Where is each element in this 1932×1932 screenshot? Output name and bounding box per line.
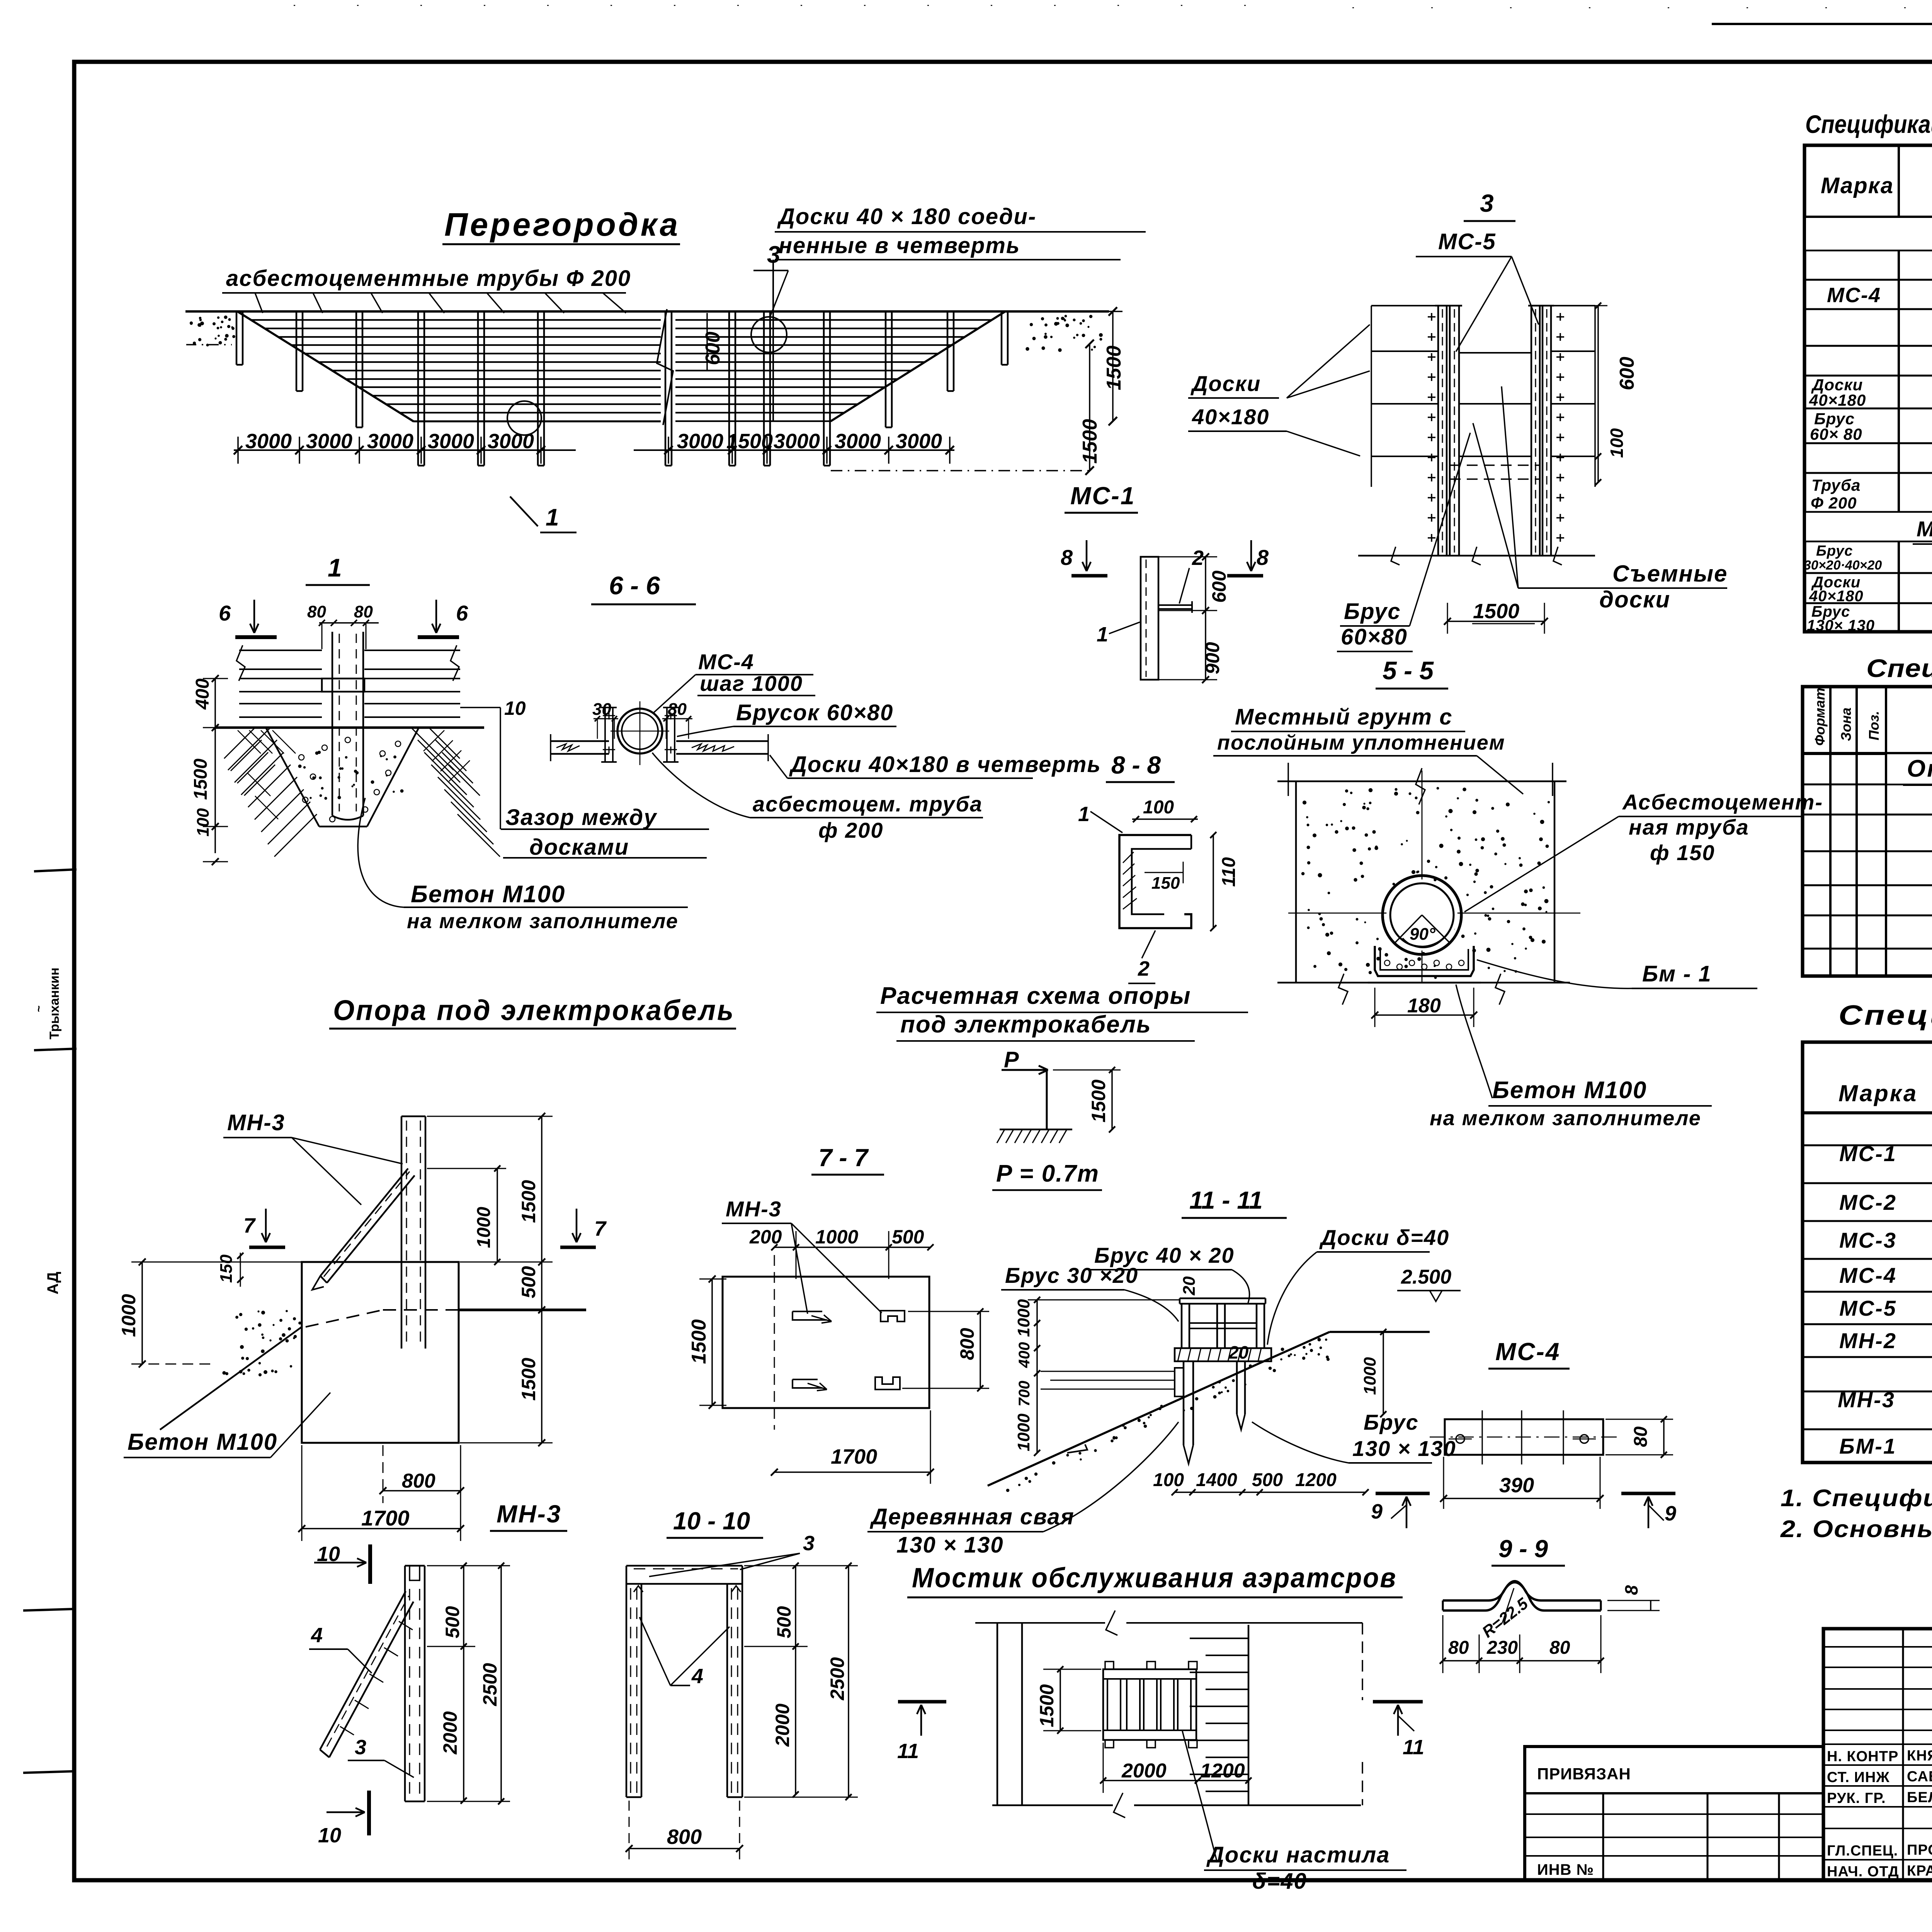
svg-text:1000: 1000 <box>1014 1413 1033 1451</box>
svg-text:2500: 2500 <box>827 1657 848 1701</box>
opora left dim 1000 <box>141 1262 143 1364</box>
svg-text:6 - 6: 6 - 6 <box>609 571 660 600</box>
svg-text:Брус: Брус <box>1364 1410 1419 1434</box>
11-11 right pile <box>1236 1361 1238 1414</box>
5-5 centerline horizontal <box>1288 913 1580 914</box>
section mark 9 right <box>1621 1492 1675 1495</box>
svg-text:~: ~ <box>32 1005 45 1012</box>
МС-4 holes <box>1456 1435 1464 1443</box>
svg-text:Съемные: Съемные <box>1612 561 1728 587</box>
opora right dim line outer 1500 500 1500 <box>541 1116 543 1443</box>
11-11 railing top rail <box>1180 1298 1265 1299</box>
svg-text:3: 3 <box>1480 189 1494 217</box>
svg-text:Брус: Брус <box>1344 599 1401 624</box>
svg-text:Бетон М100: Бетон М100 <box>1492 1077 1647 1104</box>
svg-text:P: P <box>1004 1047 1019 1072</box>
svg-text:7 - 7: 7 - 7 <box>818 1144 869 1172</box>
svg-text:500: 500 <box>442 1606 463 1638</box>
svg-text:40×180: 40×180 <box>1809 588 1864 605</box>
svg-text:Мостик обслуживания аэратсров: Мостик обслуживания аэратсров <box>912 1563 1397 1594</box>
10-10 posts <box>626 1584 628 1797</box>
6-6 clamp left <box>604 707 606 762</box>
МС-4 dim 390 bottom <box>1444 1498 1600 1499</box>
node1 left dims 400 1500 100 <box>214 679 216 853</box>
svg-text:МН-3: МН-3 <box>1838 1388 1895 1412</box>
МН-3 brace <box>320 1591 406 1750</box>
dim 1500 right lower <box>1089 344 1090 471</box>
svg-text:1500: 1500 <box>1079 419 1101 464</box>
svg-text:МН-2: МН-2 <box>1839 1328 1897 1353</box>
svg-text:7: 7 <box>243 1214 256 1237</box>
svg-text:500: 500 <box>773 1606 795 1638</box>
opora dash diagonal in footing <box>306 1310 383 1327</box>
table1 grid <box>1804 145 1932 632</box>
11-11 pile collar <box>1175 1368 1184 1396</box>
svg-text:600: 600 <box>1208 570 1230 603</box>
svg-text:Спецификация элементовк маркир: Спецификация элементовк маркировочной сх… <box>1805 110 1932 138</box>
svg-text:Бетон М100: Бетон М100 <box>128 1429 277 1455</box>
svg-text:1: 1 <box>1097 623 1108 646</box>
svg-text:послойным уплотнением: послойным уплотнением <box>1217 731 1505 754</box>
node3 right boards <box>1551 305 1595 306</box>
svg-text:ненные в четверть: ненные в четверть <box>779 233 1020 258</box>
svg-text:5 - 5: 5 - 5 <box>1383 656 1434 685</box>
opora bottom dim 1700 <box>302 1528 461 1529</box>
opora bottom dim 800 <box>383 1490 461 1492</box>
svg-text:10 - 10: 10 - 10 <box>673 1507 750 1535</box>
11-11 bottom dims <box>1175 1492 1366 1493</box>
5-5 centerline vertical <box>1422 770 1423 983</box>
7-7 angle anchor top-right <box>881 1311 905 1321</box>
svg-text:МС-4: МС-4 <box>1827 284 1881 307</box>
svg-text:1500: 1500 <box>726 430 773 453</box>
svg-text:800: 800 <box>667 1825 702 1849</box>
bottom edge of boards middle <box>414 421 661 422</box>
break symbol middle of band <box>657 309 673 425</box>
svg-text:НАЧ. ОТД: НАЧ. ОТД <box>1827 1864 1899 1880</box>
svg-text:2: 2 <box>1192 546 1204 570</box>
svg-text:Спецификация элементов моноли: Спецификация элементов монолитной констр… <box>1866 654 1932 682</box>
opora ground slope <box>160 1327 302 1430</box>
11-11 deck band <box>1175 1348 1271 1361</box>
svg-text:500: 500 <box>518 1266 539 1298</box>
svg-text:Доски 40×180 в четверть: Доски 40×180 в четверть <box>789 752 1101 777</box>
svg-text:КРАСАВИН: КРАСАВИН <box>1907 1863 1932 1879</box>
svg-text:1: 1 <box>328 553 342 582</box>
svg-text:2000: 2000 <box>772 1704 793 1747</box>
svg-text:Мостик обслуживания аэраторов: Мостик обслуживания аэраторов. <box>1917 517 1932 541</box>
7-7 angle anchor bottom-left <box>793 1379 822 1388</box>
svg-text:Местный грунт с: Местный грунт с <box>1235 704 1452 730</box>
svg-text:2000: 2000 <box>439 1711 461 1755</box>
svg-text:9: 9 <box>1665 1502 1676 1525</box>
svg-text:80: 80 <box>307 602 326 621</box>
svg-text:400: 400 <box>192 679 213 710</box>
node1 boards left block <box>239 650 322 651</box>
svg-text:80: 80 <box>668 700 687 719</box>
svg-text:230: 230 <box>1486 1638 1518 1658</box>
svg-text:Деревянная свая: Деревянная свая <box>869 1504 1075 1529</box>
node3 plus bolts left <box>1428 316 1435 318</box>
mostik left wall <box>997 1623 998 1805</box>
svg-text:40×180: 40×180 <box>1192 405 1269 429</box>
8-8 inner hatch <box>1123 852 1134 863</box>
9-9 dims 80 230 80 <box>1443 1660 1601 1662</box>
svg-text:20: 20 <box>1228 1342 1249 1362</box>
5-5 dim 180 <box>1375 1014 1474 1016</box>
svg-text:10: 10 <box>318 1824 341 1847</box>
svg-text:1000: 1000 <box>1361 1357 1379 1395</box>
svg-text:2000: 2000 <box>1121 1760 1167 1782</box>
left slope line <box>238 312 414 422</box>
svg-text:80: 80 <box>1549 1638 1570 1658</box>
svg-text:1500: 1500 <box>1103 345 1125 390</box>
10-10 dim 800 bottom <box>629 1848 740 1849</box>
svg-text:8: 8 <box>1621 1585 1641 1595</box>
svg-text:Поз.: Поз. <box>1866 711 1882 740</box>
svg-text:Доски δ=40: Доски δ=40 <box>1319 1225 1449 1250</box>
6-6 centerlines <box>639 701 641 765</box>
svg-text:асбестоцем. труба: асбестоцем. труба <box>753 792 983 816</box>
node3 ground line with breaks <box>1358 555 1595 557</box>
svg-text:МС-3: МС-3 <box>1839 1228 1897 1252</box>
node1 boards right block <box>364 650 460 651</box>
svg-text:1700: 1700 <box>831 1445 877 1468</box>
МС-4 centerline <box>1430 1437 1619 1438</box>
section mark 11 left <box>898 1700 946 1704</box>
node3 plus bolts right <box>1556 316 1564 318</box>
11-11 slope stipple <box>1158 1407 1161 1410</box>
dash-dot waterline left <box>186 344 232 345</box>
7-7 rectangle <box>723 1277 929 1408</box>
left margin fold tick y2715 <box>34 1049 77 1050</box>
МС-5 leaders <box>1456 257 1512 352</box>
node label 1 below elevation <box>510 497 538 526</box>
5-5 pipe circle <box>1383 876 1461 954</box>
7-7 dim 1700 bottom <box>774 1471 930 1473</box>
svg-text:1500: 1500 <box>518 1180 539 1223</box>
МС-4 cross ticks <box>1481 1410 1483 1464</box>
svg-text:Бетон М100: Бетон М100 <box>411 881 565 908</box>
svg-text:1500: 1500 <box>518 1358 539 1401</box>
svg-text:400: 400 <box>1016 1342 1033 1368</box>
svg-text:200: 200 <box>749 1226 782 1248</box>
svg-text:Доски настила: Доски настила <box>1206 1842 1390 1867</box>
svg-text:390: 390 <box>1499 1474 1534 1497</box>
svg-text:Н. КОНТР: Н. КОНТР <box>1827 1748 1898 1765</box>
dash-dot line right end <box>831 470 1090 471</box>
node circle 1 on elevation <box>507 401 541 435</box>
mostik bottom dims 2000 1200 <box>1103 1780 1248 1781</box>
svg-text:600: 600 <box>702 332 724 365</box>
svg-text:СТ. ИНЖ: СТ. ИНЖ <box>1827 1769 1890 1786</box>
МС-4 dim 80 right <box>1663 1419 1665 1455</box>
svg-text:8 - 8: 8 - 8 <box>1111 751 1161 779</box>
svg-text:асбестоцементные трубы Ф 200: асбестоцементные трубы Ф 200 <box>226 266 631 291</box>
svg-text:4: 4 <box>691 1665 703 1688</box>
svg-text:МС-5: МС-5 <box>1438 229 1496 254</box>
board lines of partition <box>251 319 661 321</box>
svg-text:1000: 1000 <box>815 1226 858 1248</box>
svg-text:3000: 3000 <box>367 430 413 453</box>
paper edge line top right <box>1712 23 1932 25</box>
svg-text:7: 7 <box>594 1217 607 1240</box>
node1 soil hatch left <box>228 728 270 770</box>
11-11 ground slope <box>988 1359 1269 1486</box>
6-6 board zigzags <box>556 744 580 751</box>
svg-text:900: 900 <box>1202 642 1223 674</box>
svg-text:Перегородка: Перегородка <box>444 206 680 243</box>
svg-text:1500: 1500 <box>1473 600 1519 623</box>
dim 1500 right upper <box>1112 311 1114 421</box>
svg-text:100: 100 <box>1607 428 1627 458</box>
svg-text:80: 80 <box>354 602 373 621</box>
10-10 dims right 500 2000 2500 <box>795 1566 796 1794</box>
mostik right dashed edge <box>1362 1623 1363 1700</box>
svg-text:досками: досками <box>529 835 629 860</box>
9-9 dim 8 right <box>1650 1600 1651 1611</box>
svg-text:Зона: Зона <box>1838 707 1854 741</box>
svg-text:Бм - 1: Бм - 1 <box>1642 961 1712 986</box>
svg-text:90°: 90° <box>1410 925 1435 944</box>
МН-3 dims right 500 2000 2500 <box>463 1566 464 1801</box>
privyazan block <box>1525 1747 1823 1881</box>
mostik ladder column <box>1248 1625 1250 1805</box>
svg-text:11 - 11: 11 - 11 <box>1189 1186 1263 1214</box>
svg-text:МС-1: МС-1 <box>1839 1141 1897 1166</box>
svg-text:КНЯГИНИЧЕВ: КНЯГИНИЧЕВ <box>1907 1748 1932 1764</box>
6-6 boards right <box>676 740 768 742</box>
left margin fold tick y2255 <box>34 869 77 871</box>
opora brace <box>320 1168 408 1276</box>
svg-text:150: 150 <box>1151 874 1180 893</box>
svg-text:Асбестоцемент-: Асбестоцемент- <box>1622 790 1823 814</box>
svg-text:40×180: 40×180 <box>1809 391 1866 409</box>
МН-3 post <box>404 1566 406 1801</box>
svg-text:130 × 130: 130 × 130 <box>1352 1436 1456 1461</box>
svg-text:САВИТСКИЙ: САВИТСКИЙ <box>1907 1767 1932 1785</box>
svg-text:3000: 3000 <box>774 430 820 453</box>
5-5 channel БМ-1 under pipe <box>1375 946 1474 976</box>
node1 clamp MC-4 <box>322 679 364 692</box>
table2 narrow columns <box>1829 687 1832 976</box>
svg-text:1000: 1000 <box>1014 1299 1033 1337</box>
svg-text:1200: 1200 <box>1200 1760 1245 1782</box>
svg-text:ИНВ №: ИНВ № <box>1537 1861 1594 1878</box>
svg-text:8: 8 <box>1061 545 1073 570</box>
svg-text:Брусок 60×80: Брусок 60×80 <box>736 700 893 725</box>
svg-text:δ=40: δ=40 <box>1252 1869 1307 1894</box>
stipple left end <box>217 316 219 319</box>
svg-text:ПРИВЯЗАН: ПРИВЯЗАН <box>1537 1765 1631 1783</box>
ground top line <box>185 310 1109 313</box>
svg-text:МН-3: МН-3 <box>726 1197 782 1221</box>
svg-text:2: 2 <box>1138 957 1150 980</box>
svg-text:150: 150 <box>217 1254 236 1283</box>
11-11 mid rail <box>1189 1322 1257 1324</box>
5-5 soil stipple dots <box>1360 862 1363 865</box>
svg-text:1200: 1200 <box>1295 1470 1337 1490</box>
svg-text:Зазор между: Зазор между <box>505 805 657 830</box>
svg-text:1: 1 <box>1078 803 1090 826</box>
svg-text:доски: доски <box>1599 587 1670 612</box>
opora slope stipple <box>271 1369 274 1372</box>
svg-text:3000: 3000 <box>835 430 881 453</box>
svg-text:60× 80: 60× 80 <box>1810 425 1862 443</box>
posts of partition with piles <box>236 311 238 365</box>
svg-text:Трыханкин: Трыханкин <box>47 968 62 1039</box>
МС-4 bar <box>1445 1419 1603 1455</box>
svg-text:Марка: Марка <box>1821 173 1894 198</box>
МС-1 dims 600 900 <box>1205 557 1206 680</box>
svg-text:80: 80 <box>1448 1638 1469 1658</box>
scanner noise dotted top <box>294 5 1275 6</box>
svg-text:1500: 1500 <box>1036 1684 1058 1727</box>
left margin fold tick y4585 <box>23 1771 74 1773</box>
svg-text:30: 30 <box>592 700 611 719</box>
node3 removable boards dashed <box>1450 464 1540 466</box>
node3 left boards <box>1371 305 1438 306</box>
11-11 left dim stack <box>1036 1300 1038 1453</box>
node1 pit trapezoid <box>266 728 319 827</box>
11-11 railing posts <box>1181 1304 1183 1348</box>
8-8 dim 110 <box>1213 835 1214 928</box>
svg-text:МС-1: МС-1 <box>1070 482 1135 510</box>
svg-text:3000: 3000 <box>428 430 474 453</box>
svg-text:100: 100 <box>1153 1470 1184 1490</box>
leader vertical from Доски label <box>772 260 774 421</box>
node1 ground line <box>215 726 484 729</box>
schema ground hatch <box>1000 1129 1072 1131</box>
10-10 top bar <box>626 1565 742 1567</box>
title block left signature grid <box>1902 1629 1904 1881</box>
svg-text:500: 500 <box>892 1226 924 1248</box>
table1 column lines <box>1898 145 1900 632</box>
opora post <box>401 1116 403 1349</box>
left margin fold tick y4165 <box>23 1609 74 1611</box>
svg-text:1000: 1000 <box>118 1294 139 1337</box>
svg-text:2500: 2500 <box>479 1663 501 1706</box>
svg-text:800: 800 <box>402 1470 435 1492</box>
opora right dim 1000 inner <box>497 1168 498 1262</box>
svg-text:500: 500 <box>1252 1470 1283 1490</box>
11-11 slope step <box>1067 1444 1087 1453</box>
svg-text:Спецификация стали на 1 марк: Спецификация стали на 1 марку <box>1838 1000 1932 1031</box>
svg-text:под электрокабель: под электрокабель <box>900 1011 1151 1038</box>
node3 left post pair <box>1437 306 1439 556</box>
svg-text:800: 800 <box>956 1328 978 1360</box>
node3 dim 1500 <box>1447 621 1544 622</box>
svg-text:100: 100 <box>1143 797 1174 818</box>
svg-text:10: 10 <box>504 697 526 719</box>
svg-text:МН-3: МН-3 <box>497 1500 561 1528</box>
svg-text:Брус 30 ×20: Брус 30 ×20 <box>1005 1263 1138 1287</box>
node3 top caps <box>1435 305 1462 307</box>
svg-text:МС-5: МС-5 <box>1839 1296 1897 1320</box>
svg-text:Опора под электрокабель: Опора под электрокабель <box>1907 755 1932 782</box>
svg-text:ПРОНИН: ПРОНИН <box>1907 1842 1932 1858</box>
6-6 pipe circle <box>617 709 662 753</box>
opora level line thick right <box>459 1309 586 1311</box>
svg-text:80: 80 <box>1631 1426 1651 1447</box>
svg-text:3000: 3000 <box>677 430 723 453</box>
node1 pipe post <box>332 632 333 816</box>
node3 dim 600 100 right <box>1597 306 1599 482</box>
table3 row lines <box>1803 1145 1932 1146</box>
svg-text:1000: 1000 <box>474 1207 494 1248</box>
svg-text:11: 11 <box>897 1740 919 1763</box>
svg-text:1500: 1500 <box>1088 1080 1109 1122</box>
svg-text:600: 600 <box>1616 357 1638 390</box>
section mark 9 left <box>1376 1492 1430 1495</box>
svg-text:3: 3 <box>355 1736 366 1759</box>
node3 right post pair <box>1531 306 1532 556</box>
node1 board break marks <box>236 645 245 681</box>
svg-text:БЕЛОВА: БЕЛОВА <box>1907 1789 1932 1806</box>
svg-text:20: 20 <box>1180 1276 1199 1296</box>
svg-text:МС-2: МС-2 <box>1839 1190 1897 1214</box>
svg-text:3: 3 <box>767 241 780 268</box>
svg-text:110: 110 <box>1219 857 1239 887</box>
svg-text:1500: 1500 <box>688 1319 710 1364</box>
svg-text:8: 8 <box>1257 545 1269 570</box>
5-5 bottom breaks <box>1338 974 1348 1005</box>
opora footing square <box>302 1262 459 1443</box>
svg-text:Ф 200: Ф 200 <box>1811 494 1857 512</box>
7-7 angle anchor bottom-right <box>875 1377 900 1389</box>
svg-text:1500: 1500 <box>190 759 211 800</box>
svg-text:1. Спецификация на деревянную: 1. Спецификация на деревянную перегородк… <box>1781 1485 1932 1512</box>
svg-text:1400: 1400 <box>1196 1470 1237 1490</box>
node circle 3 <box>751 317 787 352</box>
МН-3 top notch <box>409 1566 410 1580</box>
svg-text:Формат: Формат <box>1812 688 1828 746</box>
svg-text:МС-4: МС-4 <box>1495 1338 1560 1366</box>
svg-text:МС-4: МС-4 <box>698 650 754 674</box>
svg-text:Опора под электрокабель: Опора под электрокабель <box>333 994 735 1026</box>
11-11 left pile <box>1183 1361 1185 1445</box>
mostik bottom line <box>992 1804 1113 1806</box>
svg-text:P = 0.7m: P = 0.7m <box>996 1160 1099 1187</box>
svg-text:РУК. ГР.: РУК. ГР. <box>1827 1790 1886 1806</box>
svg-text:Марка: Марка <box>1838 1080 1918 1106</box>
5-5 corner extension ticks <box>1287 763 1289 796</box>
svg-text:9: 9 <box>1371 1500 1383 1523</box>
opora brace arrow tip <box>312 1276 324 1290</box>
svg-text:2.500: 2.500 <box>1401 1266 1451 1288</box>
section mark 11 right <box>1373 1700 1423 1704</box>
svg-text:3000: 3000 <box>896 430 942 453</box>
svg-text:ф 200: ф 200 <box>818 818 884 842</box>
5-5 90 degree wedge <box>1395 915 1422 943</box>
8-8 channel section <box>1119 835 1191 928</box>
svg-text:100: 100 <box>194 808 213 837</box>
7-7 angle anchor top-left <box>793 1311 827 1320</box>
svg-text:9 - 9: 9 - 9 <box>1498 1535 1548 1563</box>
stipple right end <box>1044 323 1048 327</box>
mostik aerator block <box>1103 1669 1196 1740</box>
schema column <box>1046 1070 1048 1129</box>
node1 pit concrete dots <box>315 752 319 755</box>
5-5 aggregate in channel <box>1384 960 1390 966</box>
svg-text:60×80: 60×80 <box>1341 624 1408 650</box>
svg-text:11: 11 <box>1403 1736 1424 1759</box>
МС-1 channel bar <box>1141 557 1158 680</box>
11-11 water lines <box>1041 1371 1175 1372</box>
svg-text:6: 6 <box>456 601 468 625</box>
leader lines to pipes <box>255 293 263 313</box>
7-7 dim 1500 left <box>711 1279 713 1405</box>
